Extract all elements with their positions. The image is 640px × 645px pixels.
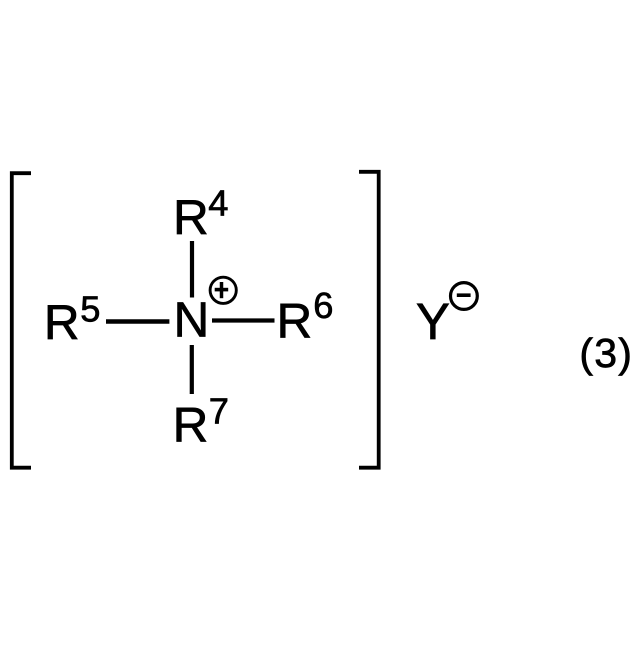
bond N-R4 (vertical top) [190,241,194,298]
svg-text:N: N [174,293,210,348]
bond R5-N (horizontal left) [106,319,169,324]
svg-text:4: 4 [208,183,228,224]
svg-text:(3): (3) [579,330,633,376]
svg-text:7: 7 [209,391,229,432]
svg-text:5: 5 [80,288,100,329]
svg-text:R: R [277,294,313,349]
svg-text:R: R [173,190,209,245]
right bracket [359,172,379,468]
charge minus circle on Y [451,283,478,310]
charge plus circle on N [210,277,236,303]
left bracket [12,173,31,468]
bond N-R7 (vertical bottom) [190,345,194,394]
svg-text:R: R [44,295,80,350]
svg-text:6: 6 [313,285,333,326]
svg-text:Y: Y [416,293,450,350]
svg-text:R: R [173,397,209,452]
bond N-R6 (horizontal right) [212,318,275,322]
